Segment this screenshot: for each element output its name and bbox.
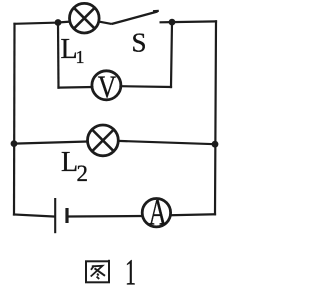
- wire voltmeter branch right vertical: [171, 22, 172, 87]
- lamp L1: [70, 3, 100, 33]
- svg-text:1: 1: [125, 253, 136, 293]
- node junction top-left (V tap): [55, 19, 62, 26]
- wire battery to ammeter: [69, 215, 143, 218]
- wire top-right horizontal: [172, 20, 216, 23]
- caption glyph "tu" box: [86, 260, 109, 283]
- wire top-left horizontal: [15, 23, 59, 24]
- wire middle-left to lamp L2: [14, 142, 88, 144]
- ammeter A: [142, 192, 170, 233]
- wire voltmeter branch bottom-right: [121, 85, 172, 88]
- lamp L2: [88, 125, 119, 156]
- wire left rail: [13, 24, 16, 215]
- svg-text:2: 2: [77, 161, 89, 186]
- wire lamp L1 to switch pivot: [99, 22, 112, 24]
- wire junction to lamp L1: [58, 21, 70, 24]
- battery long plate (+): [54, 198, 56, 233]
- svg-text:A: A: [149, 192, 167, 233]
- label L2: [61, 147, 88, 186]
- node junction middle-right: [212, 141, 219, 148]
- wire right rail: [215, 21, 216, 214]
- wire ammeter to bottom-right: [170, 213, 215, 216]
- svg-text:1: 1: [76, 47, 85, 67]
- label L1: [61, 34, 85, 67]
- node junction top-right: [169, 19, 176, 26]
- wire bottom-left to battery: [14, 215, 55, 217]
- voltmeter V: [92, 69, 121, 105]
- wire voltmeter branch left vertical: [57, 23, 60, 88]
- svg-text:S: S: [132, 28, 147, 58]
- wire voltmeter branch bottom-left: [59, 86, 93, 89]
- svg-text:V: V: [98, 69, 117, 105]
- battery short plate (-): [65, 208, 68, 223]
- switch S fixed contact stub: [160, 21, 173, 23]
- switch S blade: [112, 12, 158, 25]
- wire lamp L2 to middle-right: [118, 141, 215, 144]
- node junction middle-left: [11, 140, 18, 147]
